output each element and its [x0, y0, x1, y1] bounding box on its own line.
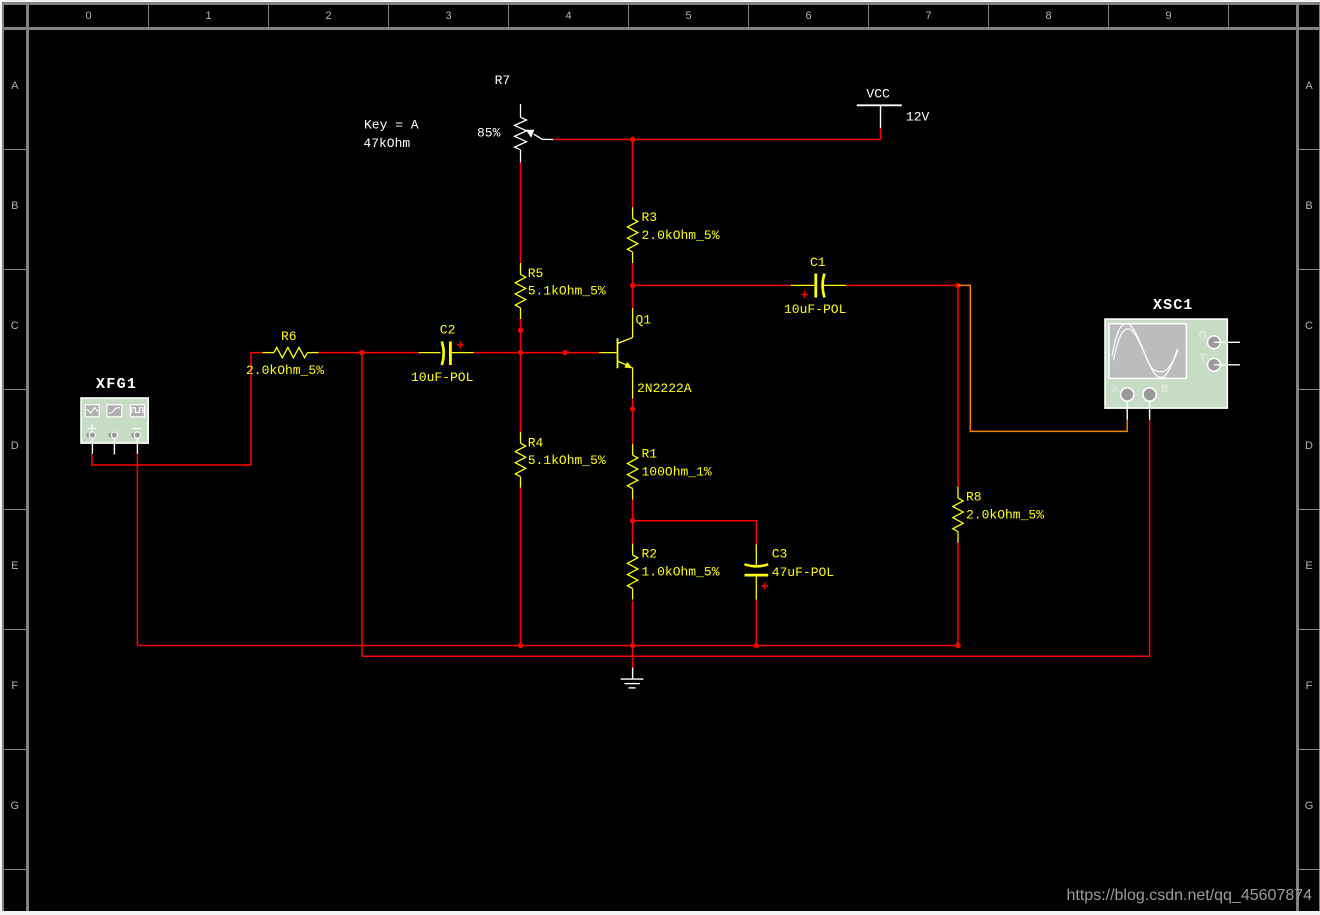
svg-text:100Ohm_1%: 100Ohm_1%: [642, 464, 712, 479]
node: dot on base wire: [562, 350, 567, 355]
node: junction R1/R2/C3: [630, 518, 635, 523]
svg-text:C3: C3: [772, 547, 788, 562]
wire: Q1 emitter to R1 top: [632, 399, 634, 444]
node: C3 bottom on rail1: [754, 643, 759, 648]
svg-text:2.0kOhm_5%: 2.0kOhm_5%: [642, 228, 720, 243]
svg-text:R4: R4: [528, 435, 544, 450]
wire: R2 bottom to rail1 and ground: [632, 601, 634, 668]
resistor R2: [627, 544, 637, 600]
wire: C1 right to R8 top corner: [846, 285, 958, 486]
svg-text:10uF-POL: 10uF-POL: [784, 302, 846, 317]
svg-text:XSC1: XSC1: [1153, 297, 1193, 314]
wire: R8 bottom to rail1: [957, 543, 959, 646]
resistor R4: [515, 432, 525, 488]
wire: R4 bottom to ground rail: [520, 488, 522, 646]
node: junction C1/R8/scope-A: [955, 283, 960, 288]
power VCC: [857, 105, 902, 128]
svg-text:R8: R8: [966, 490, 982, 505]
node: cross junction base wire / R5R4 wire: [518, 350, 523, 355]
svg-text:85%: 85%: [477, 126, 501, 141]
wire: C3 bottom to rail1: [755, 600, 757, 646]
capacitor C2: [419, 342, 474, 366]
wire: VCC rail from R7 wiper to VCC drop, y=139.5: [553, 139, 881, 141]
wire: orange wire to scope channel A: [958, 285, 1127, 431]
instrument XFG1 function generator: [81, 398, 148, 455]
resistor R3: [627, 207, 637, 263]
wire: collector junction right to C1: [633, 284, 791, 286]
capacitor C3: [745, 544, 769, 599]
node: R4 bottom on rail1: [518, 643, 523, 648]
wire: R6 right to C2 left: [318, 352, 419, 354]
svg-text:A: A: [1112, 384, 1120, 396]
wire: rail2 (lower ground rail): [362, 655, 1150, 657]
svg-text:VCC: VCC: [866, 87, 890, 102]
node: R2/ground on rail1: [630, 643, 635, 648]
node: R8 bottom on rail1: [955, 643, 960, 648]
wire: VCC drop red part: [880, 128, 882, 140]
svg-text:10uF-POL: 10uF-POL: [411, 370, 473, 385]
resistor R8: [953, 487, 963, 543]
wire: scope B down to rail2: [1149, 420, 1151, 657]
svg-text:Key = A: Key = A: [364, 118, 419, 133]
svg-text:R6: R6: [281, 329, 297, 344]
svg-text:2N2222A: 2N2222A: [637, 381, 692, 396]
svg-text:Q1: Q1: [636, 313, 652, 328]
svg-text:R2: R2: [642, 547, 658, 562]
svg-text:R3: R3: [642, 210, 658, 225]
svg-text:47kOhm: 47kOhm: [363, 136, 410, 151]
svg-text:47uF-POL: 47uF-POL: [772, 565, 834, 580]
svg-text:C2: C2: [440, 323, 456, 338]
wire: junction right to C3 top: [633, 521, 757, 545]
node: emitter node dot: [630, 406, 635, 411]
svg-text:XFG1: XFG1: [96, 376, 137, 393]
resistor R1: [627, 444, 637, 500]
wire: R7 bottom to R5 top: [520, 162, 522, 263]
wire: top rail down to R3: [632, 140, 634, 208]
node: junction R6/C2/down wire: [359, 350, 364, 355]
wire: R6 left corner down to XFG+: [92, 353, 263, 465]
transistor Q1 2N2222A: [599, 308, 632, 399]
wire: collector junction down/up: [632, 263, 634, 308]
resistor R5: [515, 263, 525, 319]
ground: [621, 668, 644, 688]
svg-text:C1: C1: [810, 255, 826, 270]
instrument XSC1 oscilloscope: [1105, 319, 1240, 420]
svg-text:1.0kOhm_5%: 1.0kOhm_5%: [642, 564, 720, 579]
wire: junction down to rail2: [361, 353, 363, 657]
node: junction top rail to R3: [630, 137, 635, 142]
capacitor C1: [791, 274, 846, 298]
svg-text:R5: R5: [528, 266, 544, 281]
svg-text:2.0kOhm_5%: 2.0kOhm_5%: [246, 363, 324, 378]
wire: R5 bottom down through junctions to R4 top: [520, 319, 522, 432]
svg-text:R7: R7: [495, 73, 511, 88]
svg-text:R1: R1: [642, 447, 658, 462]
svg-text:2.0kOhm_5%: 2.0kOhm_5%: [966, 507, 1044, 522]
svg-text:T: T: [1200, 353, 1207, 365]
svg-text:5.1kOhm_5%: 5.1kOhm_5%: [528, 453, 606, 468]
wire: R1 bottom to R2 top: [632, 500, 634, 545]
node: collector junction: [630, 283, 635, 288]
svg-text:G: G: [1199, 330, 1208, 342]
svg-text:B: B: [1161, 383, 1168, 395]
wire: base net C2 right to Q1 base: [474, 352, 600, 354]
svg-text:12V: 12V: [906, 109, 930, 124]
wire: XFG1 minus terminal down: [136, 454, 138, 646]
node: dot on R5-R4 wire: [518, 328, 523, 333]
potentiometer R7: [515, 104, 554, 162]
resistor R6: [263, 347, 319, 357]
svg-text:5.1kOhm_5%: 5.1kOhm_5%: [528, 284, 606, 299]
wire: rail1 (ground rail): [137, 645, 958, 647]
